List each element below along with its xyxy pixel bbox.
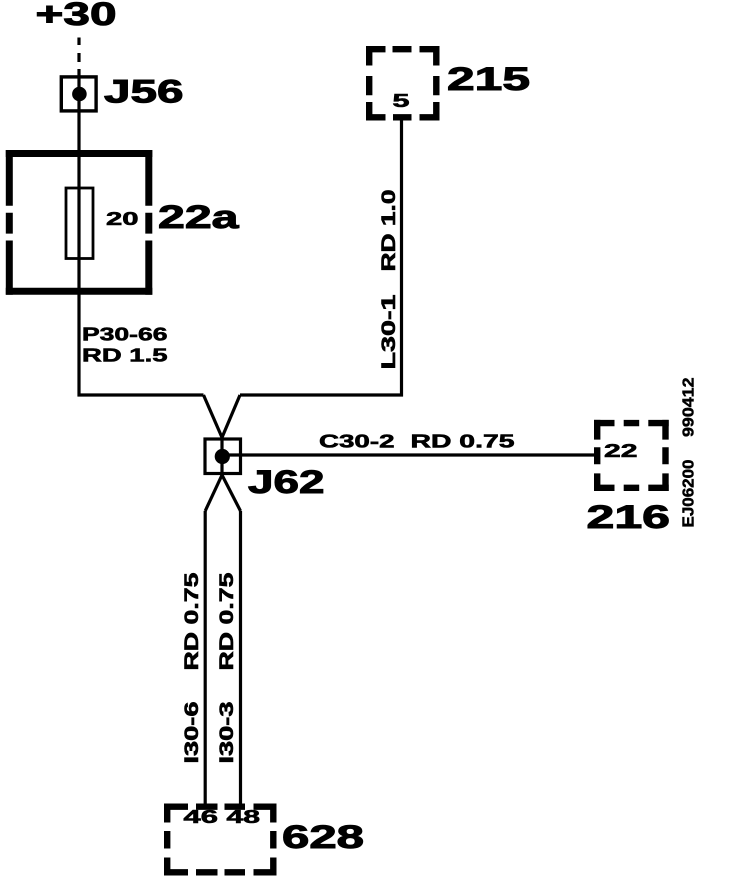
- svg-text:L30-1: L30-1: [379, 294, 400, 370]
- svg-text:J62: J62: [248, 464, 325, 500]
- svg-text:RD 0.75: RD 0.75: [182, 572, 203, 671]
- svg-text:628: 628: [282, 819, 364, 855]
- svg-text:I30-6: I30-6: [182, 702, 203, 764]
- svg-text:C30-2: C30-2: [319, 432, 395, 452]
- svg-text:RD 0.75: RD 0.75: [411, 432, 515, 452]
- svg-text:990412: 990412: [681, 377, 698, 437]
- svg-text:I30-3: I30-3: [217, 702, 238, 764]
- svg-text:22: 22: [604, 441, 638, 461]
- svg-text:48: 48: [227, 807, 261, 827]
- svg-text:RD 0.75: RD 0.75: [217, 572, 238, 671]
- svg-text:RD 1.5: RD 1.5: [82, 346, 168, 366]
- svg-text:RD 1.0: RD 1.0: [379, 190, 400, 272]
- svg-text:215: 215: [447, 61, 530, 97]
- svg-text:P30-66: P30-66: [82, 325, 168, 345]
- svg-text:216: 216: [587, 499, 671, 535]
- svg-text:+30: +30: [36, 0, 117, 32]
- svg-text:5: 5: [393, 91, 410, 111]
- svg-text:22a: 22a: [158, 199, 239, 235]
- svg-text:46: 46: [184, 807, 219, 827]
- svg-text:EJ06200: EJ06200: [681, 459, 698, 527]
- svg-text:20: 20: [106, 209, 139, 229]
- svg-text:J56: J56: [104, 74, 184, 110]
